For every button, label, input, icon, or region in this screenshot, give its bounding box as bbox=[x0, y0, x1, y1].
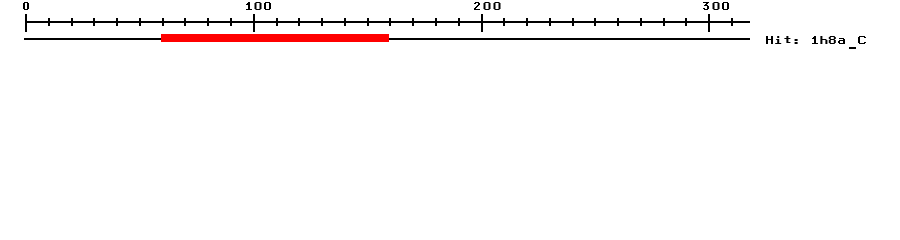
ruler major tick 200 bbox=[481, 14, 483, 32]
ruler minor tick 80 bbox=[207, 18, 209, 26]
ruler label 0 bbox=[22, 0, 33, 16]
ruler minor tick 50 bbox=[139, 18, 141, 26]
ruler minor tick 190 bbox=[458, 18, 460, 26]
ruler minor tick 240 bbox=[572, 18, 574, 26]
ruler label 100 bbox=[245, 0, 274, 16]
query sequence line bbox=[24, 38, 750, 40]
ruler label 300 bbox=[702, 0, 732, 16]
ruler major tick 300 bbox=[708, 14, 710, 32]
ruler minor tick 310 bbox=[731, 18, 733, 26]
ruler minor tick 170 bbox=[412, 18, 414, 26]
hit label text bbox=[765, 34, 868, 50]
ruler minor tick 180 bbox=[435, 18, 437, 26]
ruler axis line bbox=[25, 21, 750, 23]
ruler minor tick 230 bbox=[549, 18, 551, 26]
ruler minor tick 140 bbox=[344, 18, 346, 26]
ruler minor tick 280 bbox=[663, 18, 665, 26]
ruler minor tick 30 bbox=[93, 18, 95, 26]
ruler minor tick 250 bbox=[594, 18, 596, 26]
ruler minor tick 290 bbox=[685, 18, 687, 26]
ruler label 200 bbox=[473, 0, 503, 16]
ruler major tick 100 bbox=[253, 14, 255, 32]
ruler minor tick 270 bbox=[640, 18, 642, 26]
ruler minor tick 90 bbox=[230, 18, 232, 26]
ruler minor tick 110 bbox=[276, 18, 278, 26]
ruler minor tick 120 bbox=[298, 18, 300, 26]
ruler minor tick 130 bbox=[321, 18, 323, 26]
ruler major tick 0 bbox=[25, 14, 27, 32]
ruler minor tick 40 bbox=[116, 18, 118, 26]
ruler minor tick 220 bbox=[526, 18, 528, 26]
ruler minor tick 10 bbox=[48, 18, 50, 26]
ruler minor tick 210 bbox=[503, 18, 505, 26]
hit alignment bar (red) bbox=[161, 34, 389, 42]
ruler minor tick 160 bbox=[389, 18, 391, 26]
ruler minor tick 70 bbox=[184, 18, 186, 26]
ruler minor tick 260 bbox=[617, 18, 619, 26]
ruler minor tick 60 bbox=[162, 18, 164, 26]
ruler minor tick 20 bbox=[71, 18, 73, 26]
ruler minor tick 150 bbox=[367, 18, 369, 26]
